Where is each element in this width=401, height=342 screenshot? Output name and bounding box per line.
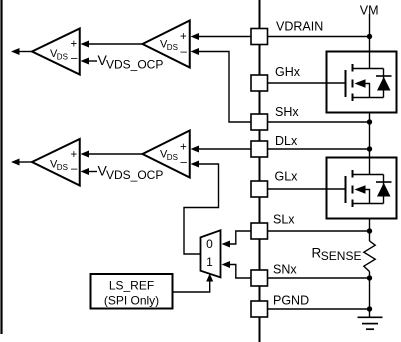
- wire: U3 - input reference stub: [88, 171, 97, 173]
- svg-text:LS_REF: LS_REF: [109, 279, 154, 293]
- pin SNx: [251, 270, 268, 286]
- wire: Q2 source vertical to RSENSE top: [369, 204, 371, 242]
- svg-text:DS: DS: [57, 163, 68, 172]
- svg-text:GLx: GLx: [275, 170, 299, 184]
- wire: SNx pin to RSENSE bottom: [268, 277, 370, 279]
- svg-text:SHx: SHx: [275, 105, 299, 119]
- junction: DLx / switch node: [367, 146, 372, 151]
- op-amp U3 (VDS comparator, low-side output stage): [32, 139, 80, 186]
- wire: U2 output to U1 + input: [88, 43, 143, 45]
- value label VVDS_OCP (high-side threshold): [98, 52, 164, 71]
- svg-text:PGND: PGND: [273, 294, 309, 308]
- op-amp U4 (VDS comparator, low-side sense stage): [143, 131, 190, 178]
- wire: SLx pin to RSENSE top: [268, 230, 370, 232]
- pin VDRAIN: [251, 29, 268, 45]
- svg-text:0: 0: [206, 237, 213, 251]
- diode D1 (Q1 body diode): [376, 69, 392, 98]
- wire: U4 output to U3 + input: [88, 153, 143, 155]
- wire: VDRAIN to U2 + input: [198, 36, 251, 38]
- svg-text:–: –: [181, 46, 188, 58]
- pin PGND: [251, 301, 268, 317]
- svg-text:1: 1: [206, 255, 213, 269]
- wire: RSENSE bottom vertical to ground: [369, 272, 371, 318]
- junction: SHx / switch node: [367, 119, 372, 124]
- op-amp U2 (VDS comparator, high-side sense stage): [143, 21, 190, 68]
- svg-text:–: –: [71, 53, 78, 65]
- wire: GLx pin to Q2 gate: [268, 188, 328, 190]
- svg-text:+: +: [71, 149, 78, 161]
- svg-text:VDRAIN: VDRAIN: [276, 20, 323, 34]
- svg-text:VDS_OCP: VDS_OCP: [106, 168, 163, 182]
- svg-text:–: –: [181, 157, 188, 169]
- wire: PGND pin to ground: [268, 308, 370, 310]
- pin GHx: [251, 75, 268, 91]
- transistor Q2 (low-side MOSFET) enclosure: [327, 158, 397, 219]
- junction: VDRAIN / VM: [367, 34, 372, 39]
- junction: SLx / RSENSE top: [367, 228, 372, 233]
- value label VVDS_OCP (low-side threshold): [98, 163, 164, 182]
- wire: U1 output arrow: [19, 51, 32, 53]
- svg-text:+: +: [71, 39, 78, 51]
- wire: SNx to mux input 1: [229, 265, 251, 279]
- figure border line (left edge): [0, 0, 2, 334]
- junction: PGND / ground net: [367, 306, 372, 311]
- value label RSENSE: [312, 246, 362, 264]
- svg-text:VDS_OCP: VDS_OCP: [106, 57, 163, 71]
- wire: SLx to mux input 0: [229, 231, 251, 244]
- svg-text:SENSE: SENSE: [321, 249, 362, 263]
- transistor Q1 (high-side MOSFET) enclosure: [327, 52, 397, 113]
- mux U5 (SLx/SNx select): [201, 230, 221, 277]
- svg-text:SNx: SNx: [273, 263, 297, 277]
- wire: DLx pin to switch node: [268, 148, 370, 150]
- pin GLx: [251, 181, 268, 197]
- pin SLx: [251, 223, 268, 239]
- pin SHx: [251, 114, 268, 130]
- svg-text:DS: DS: [167, 153, 178, 162]
- wire: mux output to U4 - input: [184, 164, 219, 254]
- svg-text:DLx: DLx: [275, 134, 298, 148]
- wire: SHx pin to switch node: [268, 121, 370, 123]
- op-amp U1 (VDS comparator, high-side output stage): [32, 29, 80, 75]
- svg-text:DS: DS: [57, 53, 68, 62]
- wire: U3 output arrow: [19, 161, 32, 163]
- resistor RSENSE: [364, 241, 375, 272]
- block LS_REF (SPI Only): [91, 274, 173, 309]
- svg-text:GHx: GHx: [275, 65, 301, 79]
- transistor Q1 symbol: [327, 52, 384, 102]
- svg-text:SLx: SLx: [273, 213, 295, 227]
- svg-text:+: +: [180, 142, 187, 154]
- wire: VM net vertical (top segment to Q1 drain): [369, 14, 371, 69]
- wire: LS_REF to mux select: [173, 280, 210, 292]
- svg-text:(SPI Only): (SPI Only): [104, 294, 159, 308]
- svg-text:+: +: [180, 31, 187, 43]
- wire: VDRAIN pin to VM net: [268, 36, 370, 38]
- svg-text:–: –: [71, 163, 78, 175]
- pin DLx: [251, 141, 268, 157]
- ground (PGND): [358, 317, 383, 329]
- svg-text:DS: DS: [167, 43, 178, 52]
- diode D2 (Q2 body diode): [376, 175, 392, 204]
- wire: U1 - input reference stub: [88, 60, 97, 62]
- svg-text:VM: VM: [360, 4, 379, 18]
- wire: switch node vertical (Q1 source to Q2 drain): [369, 98, 371, 175]
- wire: SHx to U2 - input: [198, 52, 251, 123]
- wire: device pin rail (vertical): [259, 0, 261, 342]
- junction: SNx / RSENSE bottom: [367, 275, 372, 280]
- wire: GHx pin to Q1 gate: [268, 82, 328, 84]
- transistor Q2 symbol: [327, 158, 384, 208]
- wire: DLx to U4 + input: [198, 148, 251, 150]
